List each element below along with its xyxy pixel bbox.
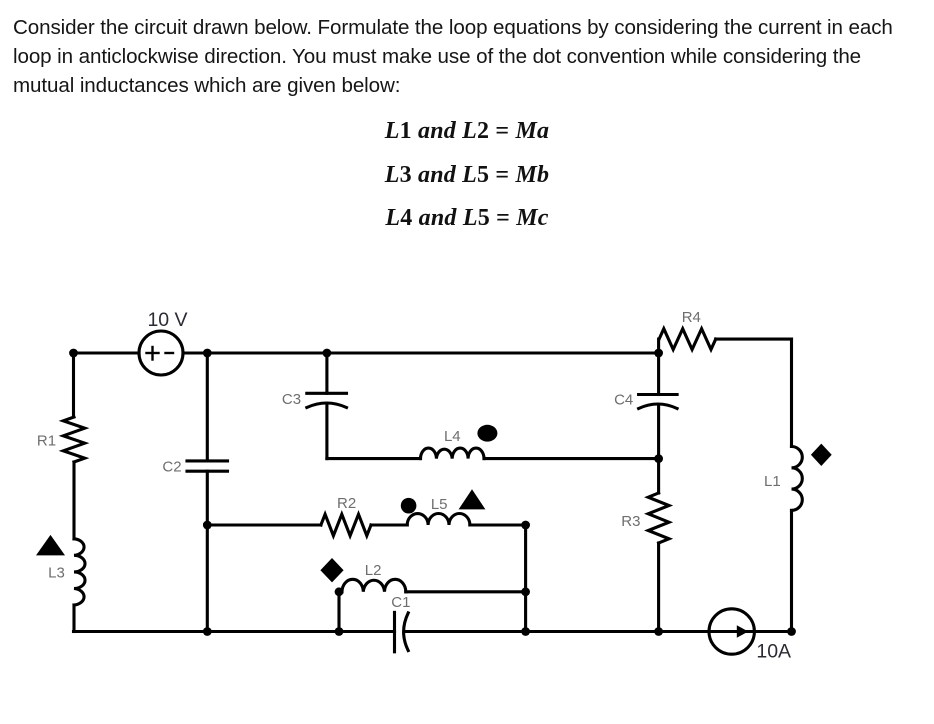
wire C3 branch lower bbox=[325, 406, 328, 459]
svg-text:C1: C1 bbox=[391, 594, 410, 611]
label 10 V bbox=[147, 309, 187, 331]
wire R2 to L5 bbox=[371, 523, 407, 526]
wire right upper (to L1) bbox=[790, 339, 793, 446]
wire C4 branch lower bbox=[657, 407, 660, 459]
node G (L2 left) bbox=[335, 587, 344, 596]
wire L5 to node E bbox=[470, 523, 526, 526]
wire node D to R2 bbox=[207, 523, 321, 526]
label L1 bbox=[764, 473, 781, 490]
svg-text:R1: R1 bbox=[37, 432, 56, 449]
dot marker diamond at L2 bbox=[320, 558, 343, 582]
capacitor C1 bbox=[395, 612, 409, 651]
label R4 bbox=[682, 309, 701, 326]
resistor R3 bbox=[648, 493, 669, 543]
current source I1 10A bbox=[709, 609, 754, 654]
capacitor C2 bbox=[187, 461, 228, 471]
wire node E down bbox=[524, 525, 527, 632]
svg-text:10 V: 10 V bbox=[147, 309, 187, 331]
dot marker triangle at L3 bbox=[36, 535, 65, 556]
svg-text:R2: R2 bbox=[337, 495, 356, 512]
wire R3 to bottom bbox=[657, 543, 660, 632]
capacitor C3 bbox=[307, 393, 347, 407]
wire L4 to node H bbox=[484, 457, 659, 460]
label C3 bbox=[282, 391, 301, 408]
node E (L5 branch right) bbox=[521, 521, 530, 530]
svg-text:C3: C3 bbox=[282, 391, 301, 408]
label L3 bbox=[48, 564, 65, 581]
dot marker circle at L5 bbox=[401, 498, 417, 514]
node B (C3 tap) bbox=[323, 349, 332, 358]
dot marker triangle at L5 bbox=[459, 489, 486, 509]
label C2 bbox=[162, 459, 181, 476]
wire left lower (L3 to bottom) bbox=[72, 605, 75, 632]
wire L2 to node F bbox=[406, 590, 526, 593]
resistor R4 bbox=[659, 329, 716, 350]
svg-text:10A: 10A bbox=[756, 640, 791, 662]
inductor L2 bbox=[342, 579, 406, 592]
wire node C to R4 bbox=[657, 339, 660, 353]
wire node H to R3 bbox=[657, 459, 660, 493]
voltage source V1 10 V bbox=[139, 331, 183, 375]
label R3 bbox=[621, 513, 640, 530]
wire left upper (to R1) bbox=[72, 353, 75, 417]
wire C4 branch upper bbox=[657, 353, 660, 395]
inductor L5 bbox=[407, 514, 470, 526]
wire C3 corner to L4 bbox=[327, 457, 421, 460]
label C4 bbox=[614, 392, 633, 409]
svg-text:L5: L5 bbox=[431, 496, 448, 513]
inductor L4 bbox=[421, 448, 485, 459]
wire C2 branch lower bbox=[206, 471, 209, 631]
wire node G down bbox=[337, 592, 340, 632]
svg-text:C2: C2 bbox=[162, 459, 181, 476]
equation L3 L5 bbox=[0, 162, 934, 189]
equation L4 L5 bbox=[0, 205, 934, 232]
resistor R2 bbox=[321, 514, 371, 535]
node bottom-right corner bbox=[787, 627, 796, 636]
label 10A bbox=[756, 640, 791, 662]
wire C3 branch upper bbox=[325, 353, 328, 393]
wire bottom segment 1 bbox=[74, 630, 395, 633]
label L5 bbox=[431, 496, 448, 513]
capacitor C4 bbox=[639, 395, 678, 409]
node A (source output / C2 tap) bbox=[203, 349, 212, 358]
node D (R2 branch tap) bbox=[203, 521, 212, 530]
resistor R1 bbox=[63, 417, 84, 462]
inductor L1 bbox=[792, 447, 803, 511]
inductor L3 bbox=[74, 539, 85, 605]
node bottom R3 bbox=[654, 627, 663, 636]
equation L1 L2 bbox=[0, 118, 934, 145]
wire C2 branch upper bbox=[206, 353, 209, 461]
wire R4 to right corner bbox=[716, 338, 792, 341]
label L4 bbox=[444, 428, 461, 445]
node bottom L5-branch bbox=[521, 627, 530, 636]
svg-text:L2: L2 bbox=[365, 562, 382, 579]
node C (top-right R4/C4 junction) bbox=[654, 349, 663, 358]
wire left middle (R1 to L3) bbox=[72, 462, 75, 539]
wire top-left segment bbox=[74, 351, 140, 354]
label C1 bbox=[391, 594, 410, 611]
svg-text:L4: L4 bbox=[444, 428, 461, 445]
svg-text:R4: R4 bbox=[682, 309, 701, 326]
node bottom C2-branch bbox=[203, 627, 212, 636]
svg-text:L1: L1 bbox=[764, 473, 781, 490]
label L2 bbox=[365, 562, 382, 579]
node top-left bbox=[69, 349, 78, 358]
paragraph text bbox=[13, 13, 893, 101]
node F (L2 right junction) bbox=[521, 587, 530, 596]
dot marker ellipse at L4 bbox=[477, 425, 497, 442]
node H (C4/L4/R3 junction) bbox=[654, 454, 663, 463]
svg-text:L3: L3 bbox=[48, 564, 65, 581]
wire top main segment bbox=[183, 351, 659, 354]
dot marker diamond at L1 bbox=[811, 444, 832, 466]
svg-text:R3: R3 bbox=[621, 513, 640, 530]
node bottom below L2 bbox=[335, 627, 344, 636]
label R1 bbox=[37, 432, 56, 449]
svg-text:C4: C4 bbox=[614, 392, 633, 409]
wire right lower (L1 to bottom) bbox=[790, 510, 793, 631]
wire bottom segment 2 bbox=[405, 630, 792, 633]
label R2 bbox=[337, 495, 356, 512]
